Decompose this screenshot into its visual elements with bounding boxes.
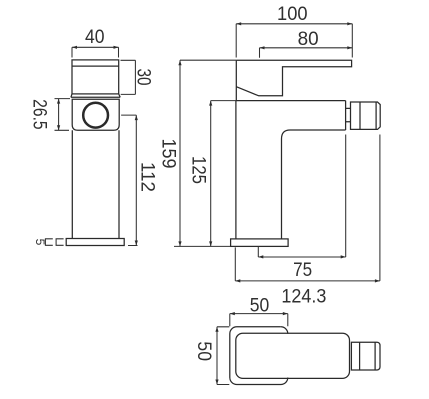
svg-text:80: 80 — [298, 29, 319, 50]
svg-text:40: 40 — [85, 27, 105, 48]
svg-text:112: 112 — [137, 162, 158, 192]
svg-text:26.5: 26.5 — [29, 99, 50, 129]
svg-text:5: 5 — [33, 239, 47, 246]
svg-text:125: 125 — [188, 156, 209, 184]
svg-text:30: 30 — [133, 69, 154, 86]
svg-text:124.3: 124.3 — [281, 286, 326, 307]
svg-text:75: 75 — [293, 260, 312, 281]
svg-text:50: 50 — [250, 296, 270, 317]
svg-text:159: 159 — [157, 139, 178, 169]
svg-text:100: 100 — [277, 4, 308, 25]
svg-text:50: 50 — [193, 341, 214, 361]
